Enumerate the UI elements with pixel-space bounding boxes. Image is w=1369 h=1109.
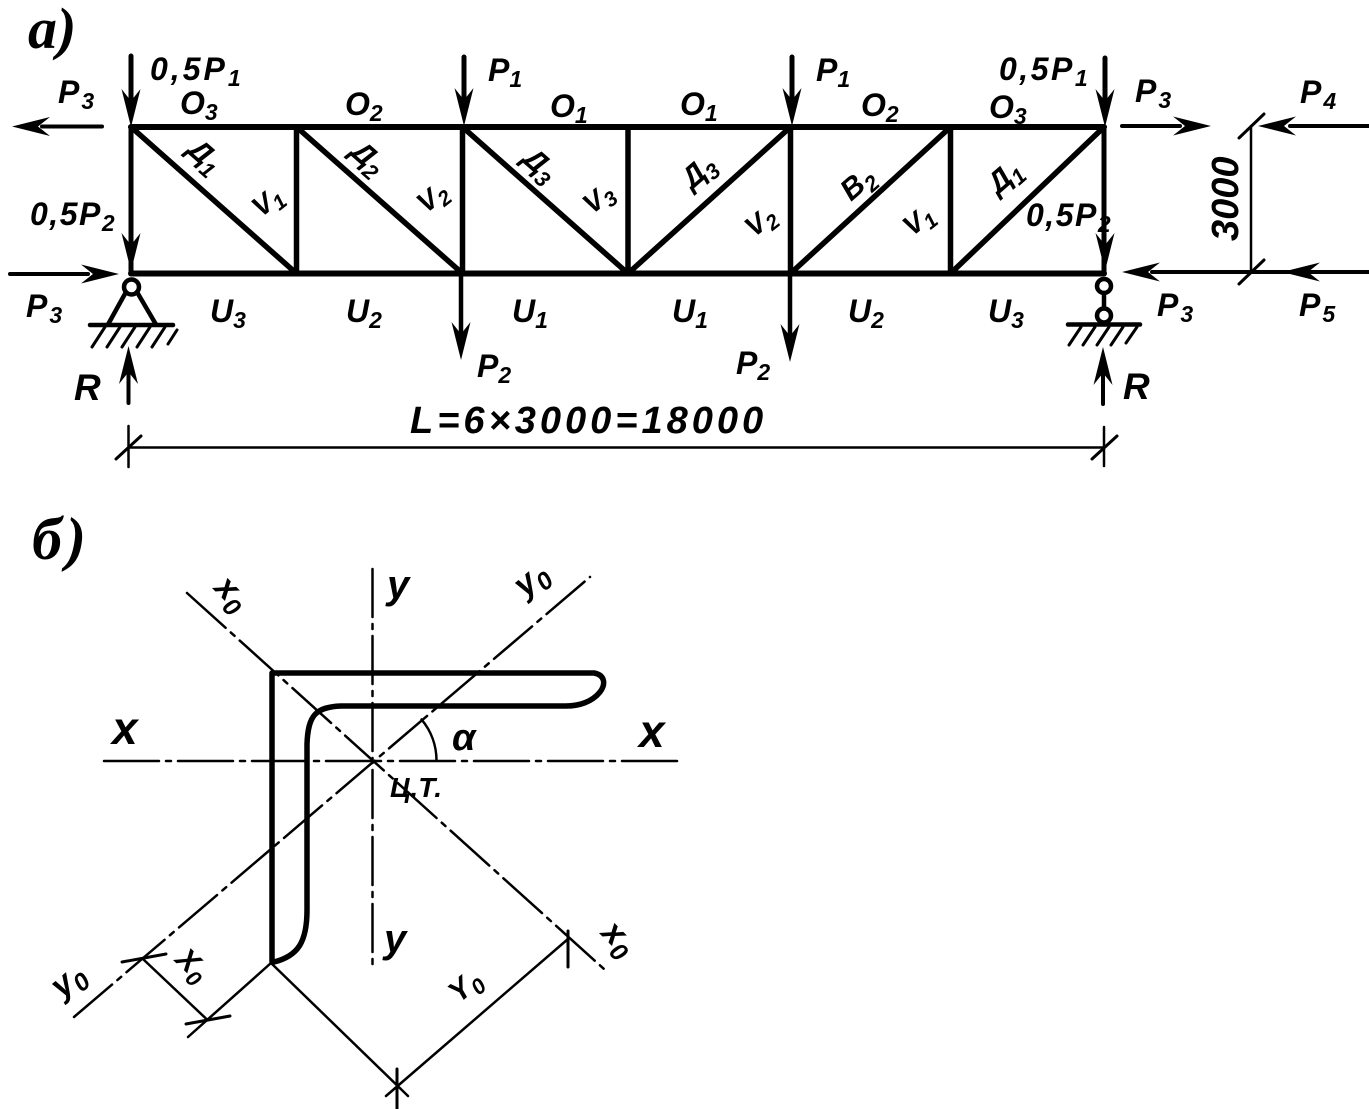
svg-text:б): б) bbox=[32, 506, 90, 572]
force arrow 0,5P1 left bbox=[129, 56, 134, 102]
svg-text:R: R bbox=[74, 367, 101, 408]
y0 axis bbox=[74, 577, 590, 1017]
tick on y0 axis bbox=[122, 954, 166, 962]
tick at apex bbox=[396, 1069, 399, 1109]
vertical V1 left bbox=[294, 127, 300, 274]
x0 axis bbox=[187, 593, 604, 969]
diagonal D3 left bbox=[463, 127, 629, 274]
extension line from leg corner to apex bbox=[271, 963, 408, 1096]
vertical V1 right bbox=[948, 127, 954, 274]
reaction arrow R right bbox=[1101, 375, 1105, 404]
vertical V2 right bbox=[788, 127, 794, 274]
alpha arc bbox=[422, 719, 437, 760]
dimension line Y0 bbox=[386, 939, 568, 1096]
svg-text:x: x bbox=[109, 702, 140, 754]
svg-text:Ц.Т.: Ц.Т. bbox=[390, 772, 442, 803]
force arrowhead 0,5P2 right bbox=[1096, 233, 1115, 271]
diagonal D1 right bbox=[951, 127, 1105, 274]
force arrow P2 right bbox=[788, 275, 793, 337]
diagonal B2 right bbox=[791, 127, 951, 274]
pin support left bbox=[124, 280, 139, 295]
roller support right bbox=[1097, 279, 1111, 293]
left end post bbox=[129, 127, 134, 274]
svg-text:y: y bbox=[382, 917, 408, 961]
force arrow P4 bbox=[1290, 124, 1369, 128]
svg-text:x: x bbox=[636, 705, 667, 757]
extension line from leg corner to lower-left bbox=[188, 963, 271, 1037]
tick on extension line bbox=[186, 1016, 230, 1024]
height dimension line 3000 bbox=[1250, 126, 1253, 272]
svg-text:a): a) bbox=[28, 0, 76, 61]
span dimension line L bbox=[129, 446, 1105, 449]
svg-text:R: R bbox=[1123, 366, 1150, 407]
force arrow P3 bottom-right with line to edge bbox=[1152, 270, 1369, 274]
x axis bbox=[104, 760, 683, 763]
svg-text:3000: 3000 bbox=[1205, 156, 1247, 241]
vertical V3 bbox=[625, 127, 631, 274]
right end post bbox=[1102, 127, 1107, 274]
dimension line X0 bbox=[144, 960, 208, 1021]
svg-text:L=6×3000=18000: L=6×3000=18000 bbox=[410, 400, 767, 442]
diagonal D3 right bbox=[628, 127, 791, 274]
diagonal D2 left bbox=[297, 127, 463, 274]
vertical V2 left bbox=[460, 127, 466, 274]
force arrowhead 0,5P2 left bbox=[122, 233, 141, 271]
force arrow P3 top-right bbox=[1122, 124, 1180, 128]
force arrow P2 left bbox=[459, 275, 464, 335]
svg-text:α: α bbox=[452, 717, 477, 759]
y axis bbox=[371, 569, 374, 970]
tick at x0 axis end bbox=[567, 931, 570, 967]
force arrow P1 left bbox=[462, 57, 467, 101]
svg-text:y: y bbox=[385, 563, 411, 607]
roller support hatching bbox=[1069, 327, 1137, 345]
bottom chord bbox=[131, 271, 1104, 277]
top chord bbox=[131, 124, 1104, 130]
force arrow P1 right bbox=[790, 57, 795, 101]
force arrow P3 top-left bbox=[42, 125, 102, 129]
angle cross-section outline bbox=[272, 673, 604, 962]
diagonal D1 left bbox=[131, 127, 297, 274]
force arrowhead P5 bbox=[1282, 263, 1320, 282]
force arrow 0,5P1 right bbox=[1103, 58, 1108, 102]
reaction arrow R left bbox=[127, 374, 131, 403]
force arrow P3 bottom-left bbox=[10, 272, 88, 276]
pin support hatching bbox=[92, 327, 177, 347]
